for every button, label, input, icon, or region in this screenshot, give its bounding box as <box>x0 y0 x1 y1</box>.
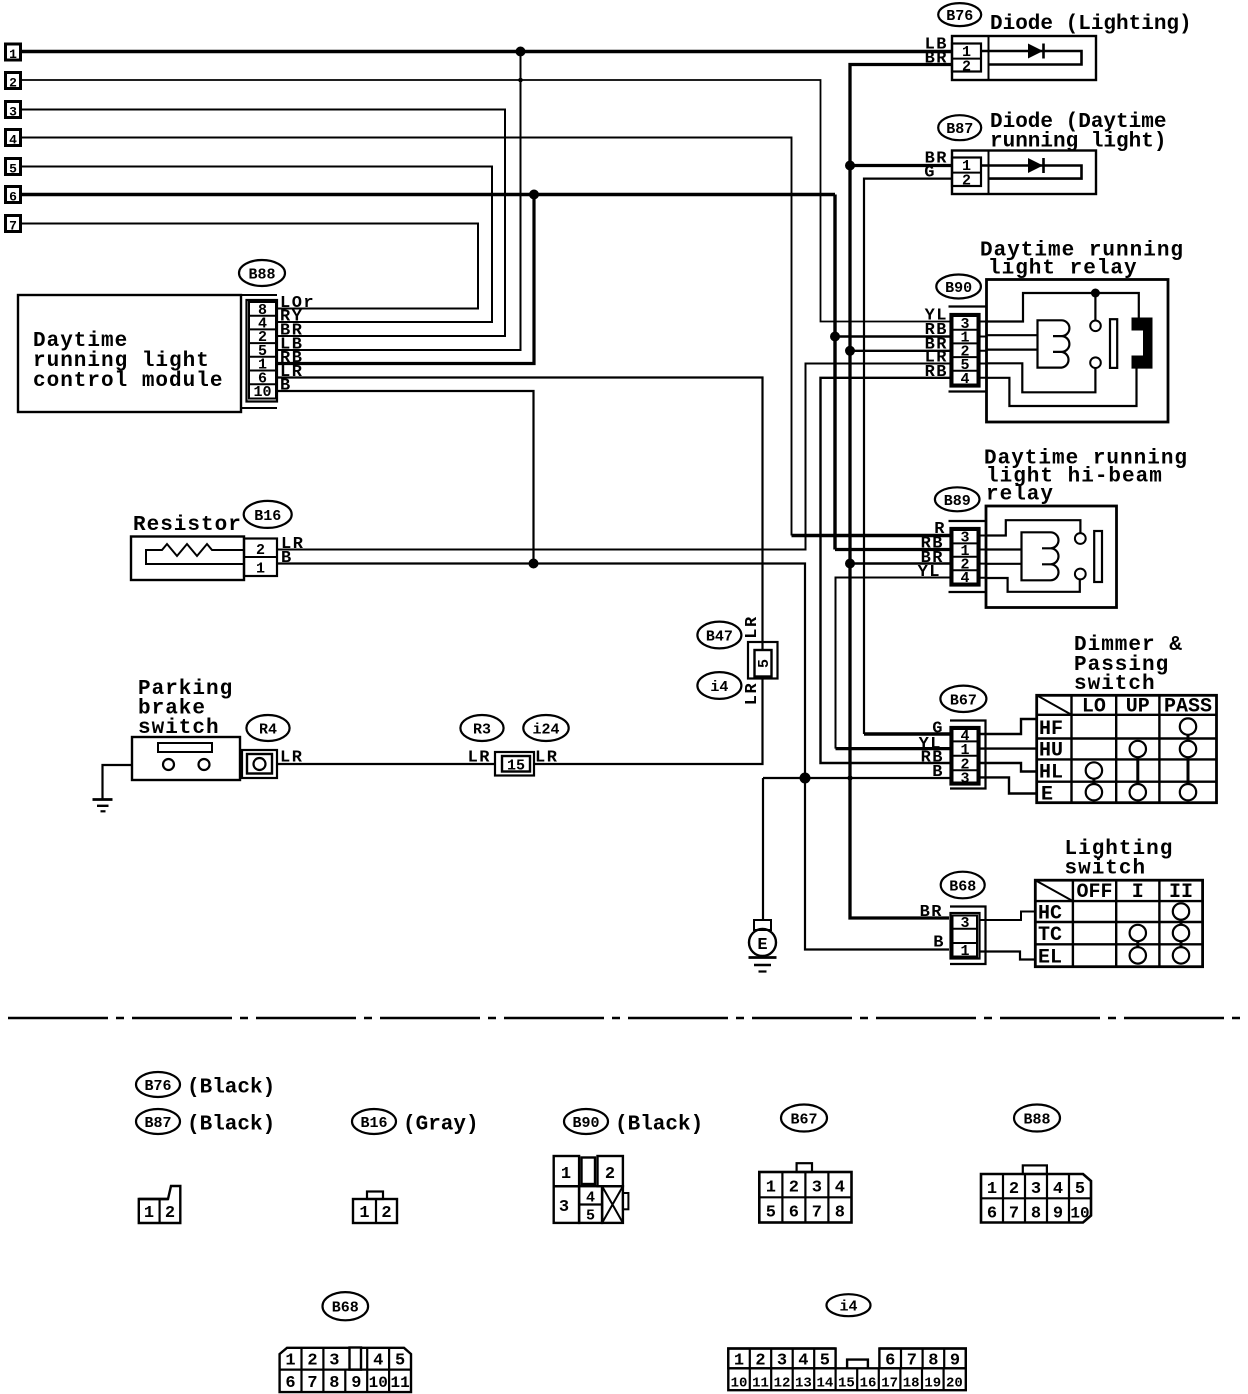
svg-text:13: 13 <box>795 1376 812 1392</box>
svg-text:1: 1 <box>359 1204 369 1223</box>
svg-text:B47: B47 <box>706 629 733 646</box>
B68 housing <box>950 907 986 965</box>
svg-text:1: 1 <box>256 561 265 578</box>
section separator line <box>8 1017 1243 1020</box>
svg-text:E: E <box>757 936 767 955</box>
svg-text:Diode (Lighting): Diode (Lighting) <box>990 13 1192 36</box>
svg-text:3: 3 <box>812 1179 822 1198</box>
svg-text:BR: BR <box>925 50 948 69</box>
svg-text:3: 3 <box>960 770 969 787</box>
svg-text:(Black): (Black) <box>615 1114 703 1137</box>
svg-text:15: 15 <box>838 1376 855 1392</box>
connector oval B68 <box>941 872 985 899</box>
wire B67 pin 4 to switch table HF <box>980 719 1037 734</box>
B90 internal wiring <box>987 289 1139 407</box>
junction B net at E drop <box>800 773 811 784</box>
svg-text:1: 1 <box>561 1165 571 1184</box>
svg-text:LR: LR <box>468 749 491 768</box>
svg-text:PASS: PASS <box>1164 696 1212 719</box>
junction BR/B90 pin 2 <box>845 346 855 356</box>
connector face B68 <box>280 1348 411 1394</box>
connector B68 <box>951 913 980 959</box>
label Parking brake switch <box>138 678 233 740</box>
svg-text:2: 2 <box>962 59 971 76</box>
svg-text:2: 2 <box>755 1352 765 1371</box>
connector oval B47 <box>697 622 741 649</box>
svg-text:9: 9 <box>351 1374 361 1393</box>
connector oval B68 (legend) <box>323 1292 369 1320</box>
svg-text:4: 4 <box>586 1190 595 1207</box>
B89 contact points <box>1075 533 1086 579</box>
B89 armature bar <box>1094 531 1102 582</box>
connector oval B76 <box>938 3 981 26</box>
wire RB to B90 pin 1 <box>835 335 951 338</box>
wire 3 (BR) to B88 pin 2 <box>21 110 505 337</box>
svg-text:4: 4 <box>1053 1180 1063 1199</box>
svg-text:3: 3 <box>1031 1180 1041 1199</box>
svg-text:i4: i4 <box>710 679 728 696</box>
junction RB/B90 pin 1 <box>830 332 840 342</box>
svg-text:10: 10 <box>253 384 271 401</box>
wire B horizontal to B67 pin 3 <box>763 777 951 779</box>
B68 pin numbers <box>960 915 969 960</box>
svg-text:B87: B87 <box>144 1115 171 1132</box>
svg-text:18: 18 <box>903 1376 920 1392</box>
wire B67 pin 1 to switch table HU <box>980 747 1037 749</box>
wire B68 pin 3 to switch table HC <box>980 912 1036 921</box>
junction B/B88 pin 10 branch <box>529 559 539 569</box>
connector oval B16 <box>244 501 292 528</box>
svg-text:1: 1 <box>766 1179 776 1198</box>
svg-text:2: 2 <box>789 1179 799 1198</box>
svg-text:4: 4 <box>960 371 969 388</box>
node dot BR crossing B wire <box>847 775 852 780</box>
svg-text:5: 5 <box>586 1208 595 1225</box>
connector B16 <box>244 539 277 577</box>
terminal 1 <box>6 44 21 62</box>
wire 7 (LOr) to B88 pin 8 <box>21 224 478 309</box>
svg-text:12: 12 <box>774 1376 791 1392</box>
dimmer contact bars <box>1094 735 1188 784</box>
terminal 5 <box>6 159 21 177</box>
wire YL to B67 pin 1 horizontal <box>836 747 951 750</box>
svg-text:B90: B90 <box>945 280 972 297</box>
svg-text:2: 2 <box>256 542 265 559</box>
svg-text:B90: B90 <box>572 1115 599 1132</box>
terminal 4 <box>6 130 21 148</box>
svg-text:E: E <box>1041 784 1053 807</box>
svg-text:HF: HF <box>1039 718 1063 741</box>
svg-text:relay: relay <box>986 484 1054 507</box>
lighting contact bars <box>1138 920 1181 948</box>
lighting switch table <box>1035 880 1202 967</box>
B67 wire labels <box>919 720 944 783</box>
svg-text:BR: BR <box>920 903 943 922</box>
svg-text:B: B <box>933 934 945 953</box>
svg-text:1: 1 <box>144 1204 154 1223</box>
svg-text:LR: LR <box>535 749 558 768</box>
wire LR parking brake segment <box>277 763 495 765</box>
svg-text:G: G <box>924 164 936 183</box>
connector face i4 <box>728 1349 966 1392</box>
wire BR to B68 pin 3 <box>850 917 949 919</box>
svg-text:6: 6 <box>9 190 17 205</box>
svg-text:B67: B67 <box>790 1112 817 1129</box>
svg-text:19: 19 <box>924 1376 941 1392</box>
wire B drop to ground E <box>762 778 764 920</box>
svg-text:2: 2 <box>9 76 17 91</box>
connector B88 housing <box>241 295 277 408</box>
wire B67 pin 3 to switch table E <box>980 777 1037 793</box>
junction wire6/B88 RB branch <box>529 190 539 200</box>
connector face B76/B87 <box>139 1186 181 1223</box>
connector face B67 <box>759 1163 851 1222</box>
diode B76 <box>952 36 1096 80</box>
svg-text:17: 17 <box>881 1376 898 1392</box>
svg-text:LO: LO <box>1082 696 1106 719</box>
svg-text:5: 5 <box>9 162 17 177</box>
connector oval i4 (legend) <box>827 1294 871 1316</box>
svg-text:2: 2 <box>1009 1180 1019 1199</box>
svg-text:7: 7 <box>9 219 17 234</box>
svg-text:3: 3 <box>9 105 17 120</box>
svg-text:EL: EL <box>1038 947 1062 970</box>
svg-text:B: B <box>280 377 292 396</box>
svg-text:2: 2 <box>165 1204 175 1223</box>
connector oval B90 (legend) <box>564 1109 608 1134</box>
svg-text:8: 8 <box>1031 1205 1041 1224</box>
svg-text:8: 8 <box>835 1204 845 1223</box>
lighting table headers <box>1076 881 1193 904</box>
wire LR from B90 pin 5 to resistor <box>277 364 951 550</box>
parking brake switch <box>103 737 241 800</box>
svg-text:(Black): (Black) <box>187 1077 275 1100</box>
wire 2 (YL) to B90 pin 3 <box>21 80 951 322</box>
connector oval R4 <box>246 715 289 741</box>
svg-text:B76: B76 <box>946 8 973 25</box>
B90 armature bar <box>1110 319 1117 368</box>
svg-text:B76: B76 <box>144 1078 171 1095</box>
label Daytime running light relay <box>980 240 1184 281</box>
connector face B88 <box>981 1165 1091 1223</box>
label Dimmer & Passing switch <box>1074 634 1183 696</box>
svg-text:3: 3 <box>960 915 969 932</box>
svg-text:4: 4 <box>960 570 969 587</box>
terminal 2 <box>6 73 21 91</box>
connector oval B88 <box>239 260 285 286</box>
svg-text:B: B <box>281 549 293 568</box>
svg-text:1: 1 <box>285 1352 295 1371</box>
connector oval i4 <box>697 672 741 699</box>
svg-text:i4: i4 <box>839 1299 857 1316</box>
B89 relay coil <box>1022 532 1059 580</box>
svg-text:1: 1 <box>987 1180 997 1199</box>
svg-text:9: 9 <box>1053 1205 1063 1224</box>
svg-text:11: 11 <box>752 1376 769 1392</box>
wire G to B67 pin 4 <box>864 732 951 735</box>
svg-text:2: 2 <box>307 1352 317 1371</box>
svg-text:UP: UP <box>1126 696 1150 719</box>
svg-text:light relay: light relay <box>988 258 1138 281</box>
connector oval B87 (legend) <box>136 1109 180 1134</box>
svg-text:5: 5 <box>766 1204 776 1223</box>
svg-text:1: 1 <box>960 943 969 960</box>
svg-text:4: 4 <box>373 1352 383 1371</box>
wire B from resistor to B68 pin 1 <box>277 564 949 950</box>
B88 wire labels <box>280 294 315 396</box>
svg-text:3: 3 <box>329 1352 339 1371</box>
svg-text:4: 4 <box>798 1352 808 1371</box>
svg-text:B16: B16 <box>254 508 281 525</box>
wire B from B88 pin 10 <box>277 391 534 564</box>
junction BR/B89 pin 2 <box>845 559 855 569</box>
dimmer contact circles <box>1086 718 1197 800</box>
wire B68 pin 1 to switch table EL <box>980 952 1036 960</box>
connector oval B88 (legend) <box>1014 1105 1060 1132</box>
B90 wire labels <box>925 307 948 382</box>
wire LR from B88 pin 6 through B47 to parking brake <box>277 378 763 765</box>
svg-text:HL: HL <box>1039 762 1063 785</box>
svg-text:2: 2 <box>381 1204 391 1223</box>
svg-text:6: 6 <box>987 1205 997 1224</box>
terminal 6 <box>6 187 21 205</box>
dimmer & passing switch table <box>1037 695 1217 802</box>
node dot on wire 2 crossing <box>518 78 523 83</box>
svg-text:5: 5 <box>820 1352 830 1371</box>
svg-text:B16: B16 <box>360 1115 387 1132</box>
svg-text:control module: control module <box>33 370 223 393</box>
connector oval R3 <box>460 715 503 741</box>
junction BR/B87 pin 1 <box>845 161 855 171</box>
wire BR trunk from B76 pin 2 <box>850 65 952 919</box>
B89 pin wire stubs <box>979 536 986 578</box>
daytime running light hi-beam relay B89 <box>949 506 1117 608</box>
wire 6 (RB trunk) <box>21 193 835 197</box>
connector oval B67 (legend) <box>781 1105 827 1132</box>
svg-text:B: B <box>932 763 944 782</box>
B90 relay coil <box>1038 320 1070 367</box>
svg-text:10: 10 <box>731 1376 748 1392</box>
svg-text:8: 8 <box>329 1374 339 1393</box>
svg-text:switch: switch <box>1074 673 1156 696</box>
svg-text:B87: B87 <box>946 121 973 138</box>
connector face B90 <box>554 1156 629 1225</box>
svg-text:Resistor: Resistor <box>133 514 242 537</box>
B68 wire labels <box>920 903 945 953</box>
connector oval B76 (legend) <box>136 1072 180 1097</box>
connector oval B16 (legend) <box>352 1109 396 1134</box>
svg-text:YL: YL <box>918 563 941 582</box>
B67 pin numbers <box>960 728 969 787</box>
connector B47/i4 pin 5 <box>748 642 778 679</box>
svg-text:switch: switch <box>1065 858 1147 881</box>
svg-text:LR: LR <box>280 749 303 768</box>
svg-text:7: 7 <box>307 1374 317 1393</box>
svg-text:(Gray): (Gray) <box>403 1114 479 1137</box>
connector B90 <box>951 314 980 387</box>
svg-text:4: 4 <box>835 1179 845 1198</box>
wire RB to B89 pin 1 <box>835 548 951 551</box>
wire 5 (RY) to B88 pin 4 <box>21 167 492 323</box>
dimmer table headers <box>1082 696 1212 719</box>
svg-text:OFF: OFF <box>1076 881 1112 904</box>
wire R to B89 pin 3 <box>792 534 951 537</box>
connector oval i24 <box>523 715 568 741</box>
svg-text:7: 7 <box>812 1204 822 1223</box>
lighting contact circles <box>1130 903 1190 963</box>
svg-text:11: 11 <box>390 1374 409 1392</box>
B90 contact points <box>1090 321 1101 369</box>
svg-text:B88: B88 <box>1023 1112 1050 1129</box>
svg-text:5: 5 <box>756 659 773 668</box>
connector B88 <box>247 300 278 402</box>
connector face B16 <box>353 1192 397 1224</box>
wire 4 (R) vertical run <box>21 138 792 536</box>
B90 pin numbers <box>960 316 969 388</box>
junction wire1/LB branch <box>516 47 526 57</box>
terminal 7 <box>6 216 21 234</box>
diode B87 <box>952 151 1096 195</box>
terminal 3 <box>6 102 21 120</box>
svg-text:5: 5 <box>1075 1180 1085 1199</box>
daytime running light relay B90 <box>949 280 1169 423</box>
connector R4 <box>242 750 277 778</box>
svg-text:1: 1 <box>734 1352 744 1371</box>
svg-text:8: 8 <box>928 1352 938 1371</box>
ground E <box>749 920 777 972</box>
wire LB branch to B88 pin 5 <box>277 52 521 351</box>
wire RB vertical to relays <box>833 195 836 550</box>
wire RB branch to B88 pin 1 <box>277 195 534 364</box>
svg-text:15: 15 <box>507 758 525 775</box>
B89 wire labels <box>918 520 946 582</box>
svg-text:LR: LR <box>743 682 762 705</box>
dimmer table row labels <box>1039 718 1063 807</box>
svg-text:B67: B67 <box>950 692 977 709</box>
connector oval B87 <box>938 115 981 140</box>
B88 pin numbers <box>253 302 271 401</box>
wire BR to B87 pin 1 <box>850 164 952 167</box>
connector oval B89 <box>935 487 980 511</box>
lighting table row labels <box>1038 903 1062 970</box>
svg-text:RB: RB <box>925 363 948 382</box>
wire BR to B89 pin 2 <box>850 562 951 564</box>
svg-text:2: 2 <box>605 1165 615 1184</box>
connector B89 <box>951 528 980 586</box>
svg-text:R4: R4 <box>259 722 277 739</box>
svg-text:HU: HU <box>1039 740 1063 763</box>
svg-text:6: 6 <box>789 1204 799 1223</box>
svg-text:2: 2 <box>962 173 971 190</box>
wire 1 (LB feed) <box>21 50 952 54</box>
svg-text:1: 1 <box>9 47 17 62</box>
B90 pin wire stubs <box>979 322 987 378</box>
B90 moving contact <box>1132 318 1153 369</box>
wire BR to B90 pin 2 <box>850 350 951 352</box>
svg-text:16: 16 <box>860 1376 877 1392</box>
svg-text:TC: TC <box>1038 924 1062 947</box>
svg-text:I: I <box>1132 881 1144 904</box>
svg-text:II: II <box>1169 881 1193 904</box>
connector B67 <box>951 727 980 785</box>
svg-text:HC: HC <box>1038 903 1062 926</box>
wire B67 pin 2 to switch table HL <box>980 763 1037 772</box>
svg-text:14: 14 <box>816 1376 833 1392</box>
svg-text:3: 3 <box>777 1352 787 1371</box>
ground (parking brake) <box>93 800 113 812</box>
label Lighting switch <box>1065 838 1174 881</box>
wire G from B87 pin 2 <box>864 179 952 734</box>
svg-text:6: 6 <box>885 1352 895 1371</box>
svg-text:(Black): (Black) <box>187 1114 275 1137</box>
svg-text:R3: R3 <box>473 722 491 739</box>
B67 housing <box>950 721 986 789</box>
label Daytime running light hi-beam relay <box>984 448 1188 507</box>
wire RB from B90 pin 4 to B67 pin 2 <box>821 378 951 763</box>
wire YL from B89 pin 4 to B67 pin 1 <box>836 578 951 749</box>
connector R3/i24 pin 15 <box>495 752 534 776</box>
svg-text:6: 6 <box>285 1374 295 1393</box>
svg-text:4: 4 <box>9 133 17 148</box>
svg-text:10: 10 <box>369 1374 388 1392</box>
svg-text:B68: B68 <box>332 1300 359 1317</box>
svg-text:20: 20 <box>946 1376 963 1392</box>
svg-text:i24: i24 <box>532 722 559 739</box>
resistor B16 <box>131 537 244 581</box>
connector oval B67 <box>940 686 986 712</box>
connector oval B90 <box>936 275 981 299</box>
B89 pin numbers <box>960 530 969 587</box>
svg-text:B88: B88 <box>248 267 275 284</box>
B89 internal wiring <box>986 520 1080 592</box>
daytime running light control module <box>18 295 241 412</box>
svg-text:3: 3 <box>559 1198 569 1217</box>
svg-text:LR: LR <box>743 615 762 638</box>
svg-text:7: 7 <box>907 1352 917 1371</box>
svg-text:B68: B68 <box>949 879 976 896</box>
svg-text:7: 7 <box>1009 1205 1019 1224</box>
svg-text:10: 10 <box>1070 1205 1089 1223</box>
svg-text:9: 9 <box>950 1352 960 1371</box>
svg-text:5: 5 <box>395 1352 405 1371</box>
svg-text:B89: B89 <box>944 493 971 510</box>
